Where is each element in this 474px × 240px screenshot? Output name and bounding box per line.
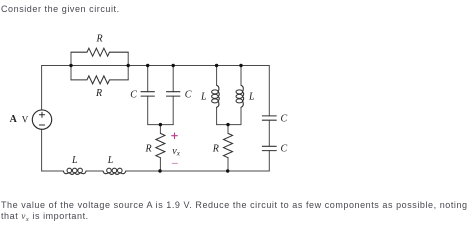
inductor L2 coil (right vertical) — [236, 85, 244, 107]
svg-text:L: L — [248, 92, 255, 103]
capacitor C3 plates (right upper) — [262, 116, 276, 120]
voltage source plus sign — [39, 112, 44, 117]
voltage source minus sign — [39, 124, 44, 126]
wire inductor branch 2 vertical — [240, 66, 242, 125]
vx annotation plus — [172, 133, 178, 139]
svg-text:vx: vx — [172, 146, 180, 158]
wire left vertical (source branch) — [41, 66, 43, 172]
capacitor C2 plates — [167, 92, 180, 96]
voltage source A circle — [32, 110, 51, 129]
resistor R2 (lower of parallel pair) — [71, 76, 128, 84]
svg-text:R: R — [96, 34, 103, 45]
svg-text:V: V — [22, 114, 29, 124]
bottom paragraph line 2 — [1, 211, 89, 221]
wire top rail — [42, 65, 270, 67]
wire capacitor branch 2 vertical — [172, 66, 174, 125]
svg-text:L: L — [71, 155, 78, 166]
node dot top ind branch 2 — [239, 64, 242, 67]
wire right vertical — [268, 66, 270, 172]
node dot bottom vx branch — [158, 169, 161, 172]
resistor R4 (right vertical) — [224, 133, 233, 157]
wire right-R leads — [227, 125, 229, 171]
node dot top ind branch 1 — [215, 64, 218, 67]
svg-text:L: L — [107, 155, 114, 166]
wire inductor pair bottom join — [217, 124, 241, 126]
title text — [1, 4, 120, 14]
wire vx-resistor leads — [159, 125, 161, 171]
inductor L3 coil (bottom left) — [63, 168, 86, 174]
wire bottom rail — [42, 170, 270, 172]
wire capacitor branch 1 vertical — [147, 66, 149, 125]
inductor L1 coil (left vertical) — [212, 85, 220, 107]
svg-text:R: R — [145, 144, 152, 155]
node dot bottom right-R branch — [226, 169, 229, 172]
resistor R3 (vx resistor, vertical) — [156, 133, 165, 157]
wire parallel-R block right side — [127, 52, 129, 80]
svg-text:C: C — [281, 144, 288, 155]
inductor L4 coil (bottom right) — [103, 168, 126, 174]
wire inductor branch 1 vertical — [216, 66, 218, 125]
node dot cap join — [159, 123, 162, 126]
bottom paragraph line 1 — [1, 200, 468, 210]
svg-text:A: A — [10, 114, 18, 125]
resistor R1 (upper of parallel pair) — [71, 48, 128, 56]
capacitor C1 plates — [141, 92, 154, 96]
svg-text:R: R — [212, 144, 219, 155]
svg-text:C: C — [130, 90, 137, 101]
node dot top-left of parallel R — [69, 64, 72, 67]
wire parallel-R block left side — [70, 52, 72, 80]
node dot ind join — [226, 123, 229, 126]
svg-text:C: C — [185, 90, 192, 101]
node dot top cap branch 2 — [172, 64, 175, 67]
capacitor C4 plates (right lower) — [262, 146, 276, 150]
svg-text:C: C — [281, 113, 288, 124]
wire capacitor pair bottom join — [148, 124, 174, 126]
vx annotation minus — [172, 162, 177, 164]
svg-text:R: R — [95, 88, 102, 99]
node dot top cap branch 1 — [146, 64, 149, 67]
svg-text:L: L — [200, 92, 207, 103]
node dot top-right of parallel R — [127, 64, 130, 67]
